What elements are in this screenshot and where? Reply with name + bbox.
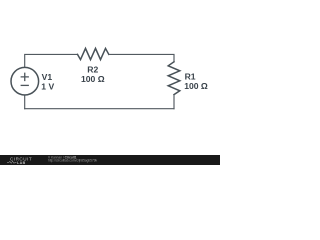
svg-text:http://circuitlab.com/c/jh85ag: http://circuitlab.com/c/jh85agb579k bbox=[48, 159, 97, 163]
wire top-left segment bbox=[25, 54, 78, 67]
svg-text:100 Ω: 100 Ω bbox=[184, 81, 208, 91]
wire bottom segment bbox=[25, 108, 174, 110]
svg-text:LAB: LAB bbox=[17, 161, 26, 165]
wire top-right segment bbox=[109, 54, 174, 61]
logo resistor squiggle bbox=[7, 161, 16, 163]
svg-text:R1: R1 bbox=[185, 72, 196, 82]
svg-text:100 Ω: 100 Ω bbox=[81, 74, 105, 84]
resistor R1 bbox=[168, 62, 180, 95]
voltage source V1 bbox=[11, 67, 39, 95]
CircuitLab logo wordmark bbox=[10, 156, 32, 165]
resistor R2 bbox=[78, 48, 109, 59]
watermark bar bbox=[0, 155, 220, 165]
wire left-bottom segment bbox=[24, 95, 26, 109]
svg-text:1 V: 1 V bbox=[41, 81, 54, 91]
wire right-bottom segment bbox=[173, 95, 175, 109]
svg-text:V1: V1 bbox=[42, 72, 53, 82]
